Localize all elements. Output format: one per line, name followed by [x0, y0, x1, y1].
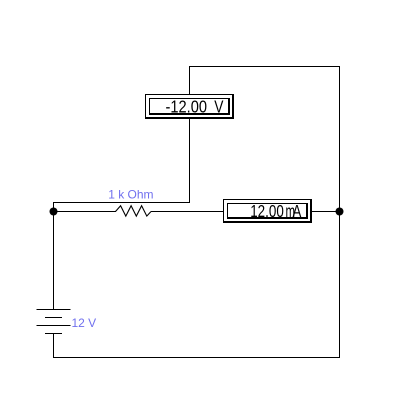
wire right vertical [339, 66, 340, 358]
wire resistor left lead [53, 211, 116, 212]
wire battery bottom lead [53, 333, 54, 358]
wire battery top lead [53, 211, 54, 309]
svg-text:1 k Ohm: 1 k Ohm [108, 188, 153, 202]
ammeter U2 outer box [223, 199, 312, 223]
wire bottom horizontal [53, 357, 340, 358]
svg-text:-12.00: -12.00 [166, 96, 208, 117]
battery V1 plates [37, 309, 71, 334]
wire node A upper stub [53, 202, 54, 212]
wire voltmeter bottom lead [189, 119, 190, 202]
wire resistor right lead to ammeter [151, 211, 223, 212]
svg-text:12 V: 12 V [72, 316, 97, 330]
voltmeter U1 outer box [145, 94, 234, 119]
svg-text:V: V [214, 96, 223, 117]
node B junction dot [336, 208, 344, 216]
wire voltmeter top lead [189, 66, 190, 94]
wire mid horizontal to node A [53, 202, 190, 203]
voltmeter U1 inner box [149, 98, 230, 115]
resistor R1 zigzag [116, 206, 152, 216]
node A junction dot [50, 208, 58, 216]
svg-text:12.00: 12.00 [250, 202, 284, 221]
wire top horizontal [189, 66, 340, 67]
svg-text:A: A [293, 202, 302, 221]
ammeter U2 inner box [227, 203, 308, 219]
wire ammeter right lead to node B [312, 211, 339, 212]
